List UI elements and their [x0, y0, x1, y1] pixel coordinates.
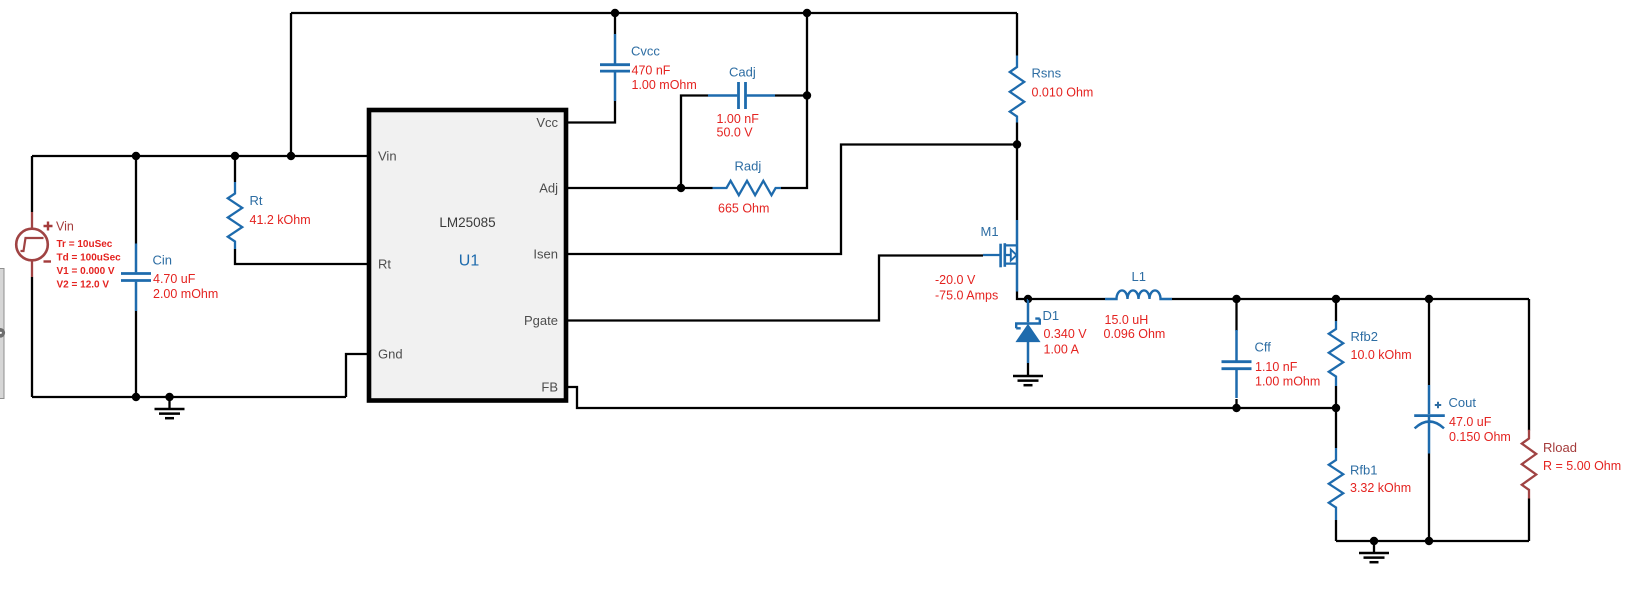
resistor Radj: [713, 181, 782, 195]
svg-text:Rt: Rt: [250, 193, 263, 208]
value M1 current: [935, 289, 998, 303]
junction Vin row / Rt: [231, 152, 239, 160]
svg-text:Radj: Radj: [735, 159, 762, 174]
value Vin Td: [57, 253, 122, 264]
svg-text:0.096 Ohm: 0.096 Ohm: [1104, 327, 1166, 341]
resistor Rfb2: [1329, 321, 1343, 386]
svg-text:U1: U1: [459, 253, 480, 270]
svg-text:FB: FB: [541, 380, 558, 395]
resistor Rt: [228, 182, 242, 249]
junction bottom rail / Cin: [132, 393, 140, 401]
label Radj: [735, 159, 762, 174]
wire Rt to U1 Rt pin: [235, 249, 367, 264]
label Cvcc: [631, 44, 660, 59]
value Rfb1 resistance: [1350, 481, 1411, 495]
svg-text:4.70 uF: 4.70 uF: [153, 272, 196, 286]
wire output ground rail: [1336, 540, 1529, 542]
svg-text:50.0 V: 50.0 V: [717, 126, 754, 140]
pin label Vin: [378, 149, 397, 164]
pin label FB: [541, 380, 558, 395]
wire top rail (Vin net): [291, 12, 1017, 14]
junction output ground rail / Cout: [1425, 537, 1433, 545]
value Cadj capacitance: [717, 112, 760, 126]
wire U1 Pgate pin to M1 gate: [566, 256, 983, 321]
diode D1 (Schottky): [1016, 299, 1040, 363]
wire Vout rail down to Cff: [1235, 299, 1237, 331]
wire Radj to top rail: [781, 13, 807, 188]
svg-text:0.340 V: 0.340 V: [1044, 327, 1088, 341]
svg-text:Cin: Cin: [153, 253, 173, 268]
label Vin source name: [56, 220, 74, 234]
label Rsns: [1032, 66, 1062, 81]
junction Adj pin / Cadj branch: [677, 184, 685, 192]
label L1: [1132, 269, 1146, 284]
junction Vout rail / Cout: [1425, 295, 1433, 303]
svg-text:47.0 uF: 47.0 uF: [1449, 415, 1492, 429]
wire V1 source - to bottom rail: [31, 277, 33, 397]
svg-text:470 nF: 470 nF: [632, 64, 671, 78]
value Rt resistance: [250, 213, 311, 227]
voltage source Vin (pulse): [16, 212, 48, 277]
label Rt: [250, 193, 263, 208]
value Radj resistance: [718, 202, 769, 216]
wire Cff to FB rail: [1235, 399, 1237, 408]
label M1: [981, 224, 999, 239]
value D1 forward voltage: [1044, 327, 1088, 341]
wire Cvcc to top rail: [614, 13, 616, 34]
junction top rail / Cvcc: [611, 9, 619, 17]
svg-text:Pgate: Pgate: [524, 313, 558, 328]
junction Vin row / Cin: [132, 152, 140, 160]
value Vin Tr: [57, 239, 113, 250]
wire FB rail down to Rfb1: [1335, 408, 1337, 448]
svg-text:Rt: Rt: [378, 257, 391, 272]
svg-text:0.150 Ohm: 0.150 Ohm: [1449, 430, 1511, 444]
wire Rsns to sense node: [1016, 123, 1018, 145]
pin label Isen: [533, 247, 558, 262]
wire Vout rail down to Cout: [1428, 299, 1430, 385]
resistor Rload: [1522, 430, 1536, 499]
wire Rload to output ground rail: [1528, 499, 1530, 542]
svg-text:Tr = 10uSec: Tr = 10uSec: [57, 239, 113, 250]
svg-text:Rload: Rload: [1543, 440, 1577, 455]
UI panel-handle fragment (left screen edge): [0, 269, 5, 399]
svg-text:M1: M1: [981, 224, 999, 239]
pin label Adj: [539, 181, 558, 196]
wire top rail down to Rsns: [1016, 13, 1018, 56]
wire bottom ground rail (left): [32, 396, 346, 398]
svg-text:Td = 100uSec: Td = 100uSec: [57, 253, 122, 264]
wire U1 Isen pin to Rsns bottom: [566, 145, 1017, 255]
resistor Rsns: [1010, 56, 1024, 123]
label D1: [1043, 308, 1060, 323]
value Vin V1: [57, 266, 115, 277]
label Cadj: [729, 65, 756, 80]
value Rload resistance: [1543, 459, 1621, 473]
svg-text:2.00 mOhm: 2.00 mOhm: [153, 287, 218, 301]
svg-text:Cadj: Cadj: [729, 65, 756, 80]
svg-text:D1: D1: [1043, 308, 1060, 323]
value Cout ESR: [1449, 430, 1511, 444]
ground (D1 anode): [1013, 363, 1043, 385]
wire top-rail drop to Vin row: [290, 13, 292, 156]
value Vin V2: [57, 280, 110, 291]
svg-text:Rfb1: Rfb1: [1350, 463, 1377, 478]
junction FB rail / Rfb divider: [1332, 404, 1340, 412]
capacitor Cvcc: [600, 34, 630, 101]
junction Rsns / Isen sense node: [1013, 140, 1021, 148]
ground (output rail): [1359, 537, 1389, 562]
wire U1 Adj pin to Radj: [566, 187, 713, 189]
svg-text:Cout: Cout: [1449, 395, 1477, 410]
svg-text:Cvcc: Cvcc: [631, 44, 660, 59]
value Cvcc capacitance: [632, 64, 671, 78]
svg-text:10.0 kOhm: 10.0 kOhm: [1351, 348, 1412, 362]
junction switch node / D1: [1024, 295, 1032, 303]
svg-text:-75.0 Amps: -75.0 Amps: [935, 289, 998, 303]
value Cin ESR: [153, 287, 218, 301]
svg-text:665 Ohm: 665 Ohm: [718, 202, 769, 216]
wire sense node to M1 source: [1016, 145, 1018, 221]
label Cff: [1255, 340, 1272, 355]
ground (input rail): [155, 393, 185, 418]
svg-text:Isen: Isen: [533, 247, 558, 262]
value M1 Vds: [935, 273, 976, 287]
label U1 refdes: [459, 253, 480, 270]
resistor Rfb1: [1329, 448, 1343, 520]
junction Vout rail / Cff: [1232, 295, 1240, 303]
svg-text:Vin: Vin: [56, 220, 74, 234]
svg-text:V2 = 12.0 V: V2 = 12.0 V: [57, 280, 110, 291]
wire switch node to L1: [1028, 298, 1105, 300]
wire Vin row down to Rt: [234, 156, 236, 182]
wire Cin to bottom rail: [135, 311, 137, 397]
value Cff ESR: [1255, 375, 1320, 389]
junction Vin row / top rail: [287, 152, 295, 160]
svg-text:R = 5.00 Ohm: R = 5.00 Ohm: [1543, 459, 1621, 473]
wire Cout to output ground rail: [1428, 454, 1430, 542]
svg-text:Gnd: Gnd: [378, 347, 403, 362]
pin label Rt: [378, 257, 391, 272]
svg-text:V1 = 0.000 V: V1 = 0.000 V: [57, 266, 115, 277]
svg-text:1.10 nF: 1.10 nF: [1255, 360, 1298, 374]
svg-text:0.010 Ohm: 0.010 Ohm: [1032, 86, 1094, 100]
label Rfb2: [1351, 329, 1378, 344]
pin label Pgate: [524, 313, 558, 328]
value Cvcc ESR: [632, 78, 697, 92]
label Rfb1: [1350, 463, 1377, 478]
svg-text:Rsns: Rsns: [1032, 66, 1062, 81]
wire Adj junction up to Cadj: [681, 96, 708, 189]
wire Vout rail: [1172, 298, 1529, 300]
pin label Vcc: [536, 115, 558, 130]
value Rfb2 resistance: [1351, 348, 1412, 362]
wire Rfb1 to output ground rail: [1335, 520, 1337, 541]
value Rsns resistance: [1032, 86, 1094, 100]
svg-text:LM25085: LM25085: [439, 215, 495, 230]
label Cout: [1449, 395, 1477, 410]
svg-text:Vcc: Vcc: [536, 115, 558, 130]
svg-text:Rfb2: Rfb2: [1351, 329, 1378, 344]
wire Cadj to Radj-right branch: [775, 94, 807, 96]
wire Vin row down to Cin: [135, 156, 137, 244]
label U1 part number LM25085: [439, 215, 495, 230]
value Cin capacitance: [153, 272, 196, 286]
svg-text:Cff: Cff: [1255, 340, 1272, 355]
svg-text:1.00 mOhm: 1.00 mOhm: [1255, 375, 1320, 389]
capacitor Cin: [121, 244, 151, 312]
pin label Gnd: [378, 347, 403, 362]
capacitor Cff: [1222, 330, 1252, 398]
label Cin: [153, 253, 173, 268]
svg-text:L1: L1: [1132, 269, 1146, 284]
label Rload: [1543, 440, 1577, 455]
svg-text:1.00 mOhm: 1.00 mOhm: [632, 78, 697, 92]
value L1 inductance: [1105, 313, 1149, 327]
wire Vout rail down to Rfb2: [1335, 299, 1337, 321]
svg-text:41.2 kOhm: 41.2 kOhm: [250, 213, 311, 227]
inductor L1: [1105, 290, 1172, 299]
wire left drop to V1 source +: [31, 156, 33, 212]
capacitor Cadj: [708, 82, 775, 109]
svg-text:Adj: Adj: [539, 181, 558, 196]
Cout + polarity mark: [1435, 402, 1441, 408]
value Cadj voltage: [717, 126, 754, 140]
op-amp/regulator U1 LM25085 body: [369, 110, 566, 401]
value L1 DCR: [1104, 327, 1166, 341]
svg-text:Vin: Vin: [378, 149, 397, 164]
value D1 current: [1044, 343, 1080, 357]
wire Rfb2 to FB rail: [1335, 386, 1337, 408]
wire Vin row to U1 Vin pin: [32, 155, 367, 157]
svg-text:3.32 kOhm: 3.32 kOhm: [1350, 481, 1411, 495]
transistor M1 (PMOS): [983, 220, 1017, 292]
Vin source + polarity mark: [44, 222, 53, 231]
svg-text:-20.0 V: -20.0 V: [935, 273, 976, 287]
svg-text:1.00 A: 1.00 A: [1044, 343, 1080, 357]
value Cout capacitance: [1449, 415, 1492, 429]
wire M1 drain to switch node: [1017, 292, 1028, 300]
value Cff capacitance: [1255, 360, 1298, 374]
junction FB rail / Cff: [1232, 404, 1240, 412]
junction top rail / Radj branch: [803, 9, 811, 17]
wire FB net from U1 FB pin: [566, 387, 1336, 408]
svg-text:15.0 uH: 15.0 uH: [1105, 313, 1149, 327]
wire Vout rail down to Rload: [1528, 299, 1530, 431]
junction Vout rail / Rfb2: [1332, 295, 1340, 303]
junction Cadj / Radj right branch: [803, 91, 811, 99]
capacitor Cout (polarized): [1414, 385, 1445, 454]
wire U1 Vcc pin to Cvcc: [566, 101, 615, 123]
Vin source - polarity mark: [44, 260, 52, 262]
svg-text:1.00 nF: 1.00 nF: [717, 112, 760, 126]
wire bottom rail up to U1 Gnd pin: [346, 354, 367, 397]
